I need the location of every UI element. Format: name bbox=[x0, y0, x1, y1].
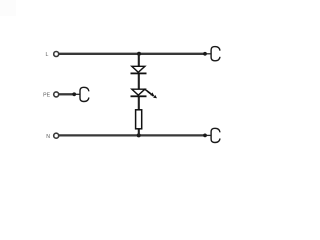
plug connector N bbox=[211, 128, 220, 142]
junction L/plug bbox=[203, 52, 207, 56]
wire L bbox=[59, 53, 211, 55]
diode D1 bbox=[131, 66, 147, 73]
faint corner patch bbox=[0, 0, 16, 16]
LED emission arrow 1 bbox=[144, 89, 154, 96]
junction L/branch bbox=[137, 52, 141, 56]
junction N/plug bbox=[203, 134, 207, 138]
LED emission arrow 2 bbox=[147, 91, 157, 98]
wire branch vertical bbox=[138, 54, 140, 136]
terminal circle PE bbox=[54, 92, 59, 97]
svg-text:PE: PE bbox=[43, 93, 50, 99]
resistor R1 bbox=[136, 110, 142, 129]
LED D2 bbox=[131, 89, 147, 96]
label L bbox=[46, 52, 49, 58]
label N bbox=[46, 134, 50, 140]
junction PE/plug bbox=[72, 92, 76, 96]
svg-text:L: L bbox=[46, 52, 49, 58]
label PE bbox=[43, 93, 50, 99]
plug connector L bbox=[211, 47, 220, 61]
terminal circle N bbox=[54, 133, 59, 138]
terminal circle L bbox=[54, 52, 59, 57]
junction N/branch bbox=[137, 133, 141, 137]
wire N bbox=[59, 134, 211, 136]
svg-text:N: N bbox=[46, 134, 50, 140]
plug connector PE bbox=[80, 87, 89, 101]
wire PE bbox=[59, 93, 80, 95]
